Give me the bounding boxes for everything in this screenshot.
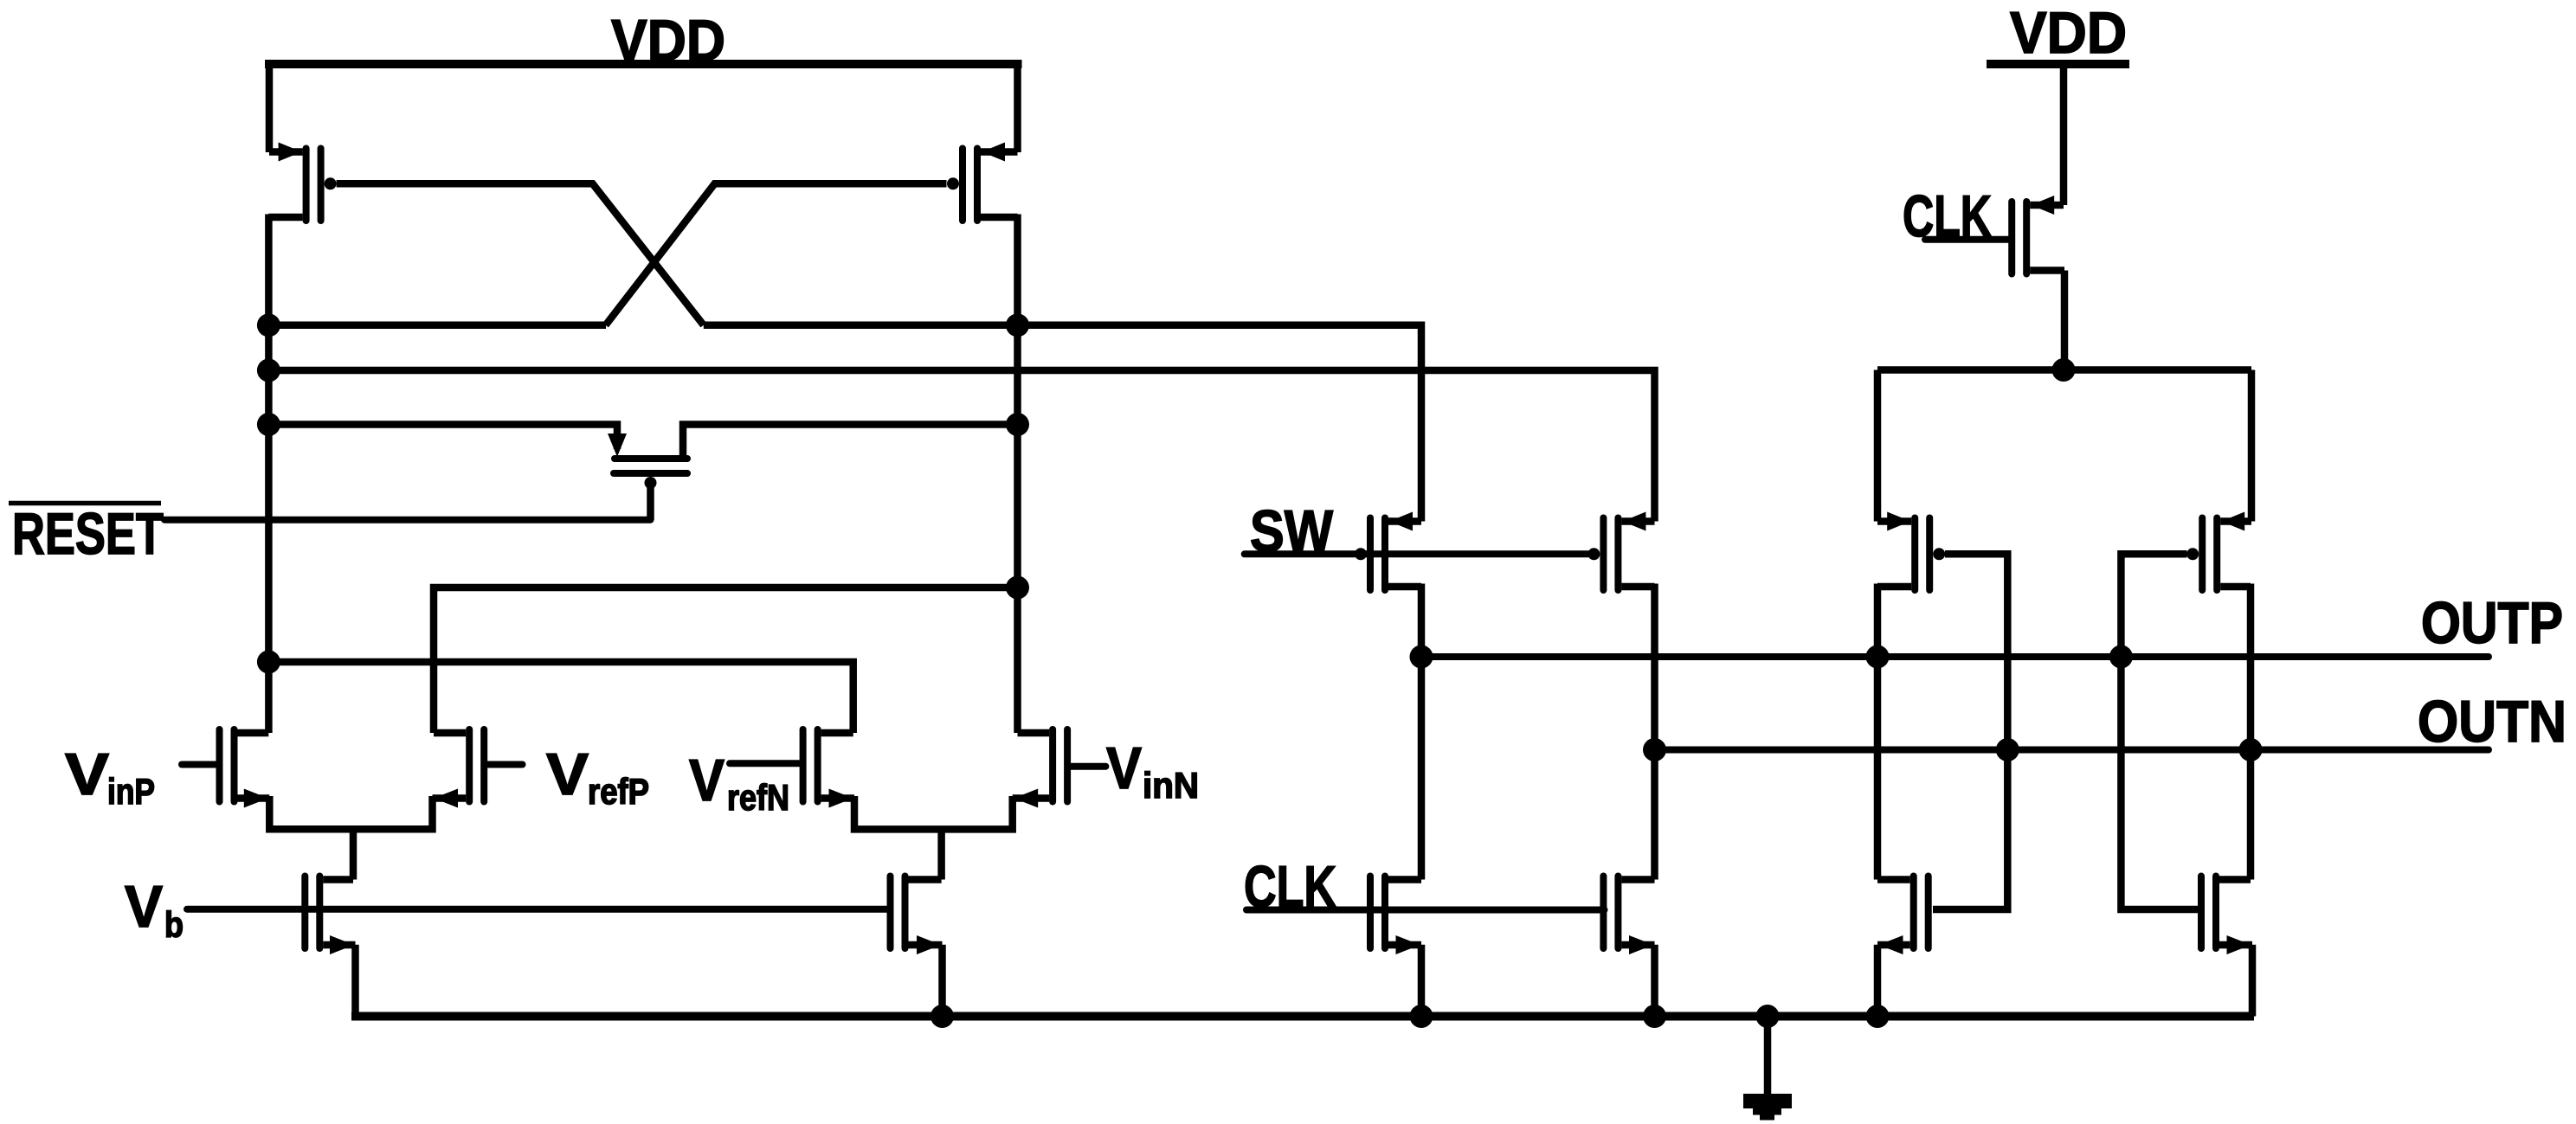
wire M17 source to ground rail: [1874, 945, 1882, 1017]
node dot left rail wire3: [257, 413, 280, 436]
wire RESET input: [164, 517, 651, 523]
node dot ground rail CLK left: [1410, 1005, 1433, 1028]
svg-text:VDD: VDD: [611, 8, 725, 74]
node dot OUTN at M16 drain: [2239, 738, 2263, 761]
node dot OUTP at M16 gate: [2109, 645, 2133, 669]
wire M15 drain / M17 drain column (OUTP tap): [1874, 584, 1882, 880]
wire VDD to CLK PMOS source: [2060, 64, 2068, 205]
transistor M7 (reference PMOS VrefN): [803, 729, 854, 808]
svg-text:b: b: [164, 904, 184, 945]
transistor M3 gate stub: [647, 486, 654, 520]
wire VDD rail left drop: [266, 60, 274, 152]
wire M16 gate to OUTP and M18 gate: [2121, 554, 2205, 909]
wire SW-left drain column to CLK-left drain: [1418, 584, 1426, 880]
node dot right rail wire3: [1006, 413, 1029, 436]
node dot ground rail tail M9: [931, 1005, 954, 1028]
transistor M3 gate bar: [614, 470, 687, 477]
svg-text:V: V: [1106, 735, 1142, 801]
transistor M9 (tail NMOS right (Vb)): [891, 877, 943, 955]
wire VDD rail right drop: [1014, 60, 1021, 152]
transistor M15 (output latch PMOS left): [1877, 512, 1945, 591]
wire tail M9 source to ground rail: [938, 945, 946, 1017]
wire SW gate line: [1245, 550, 1590, 557]
wire left output cross line to right SW source: [268, 370, 1654, 522]
wire reset-switch left arm: [268, 425, 617, 450]
svg-text:RESET: RESET: [12, 501, 164, 567]
transistor M17 (output latch NMOS left): [1877, 877, 1929, 955]
node dot OUTN at SW-right drain: [1643, 738, 1666, 761]
wire CLK-left source to ground rail: [1418, 945, 1426, 1017]
wire VinN gate lead: [1071, 763, 1105, 770]
transistor M11 (switch PMOS SW right): [1587, 512, 1654, 591]
transistor M8 (input PMOS VinN): [1013, 729, 1067, 808]
wire ground stub: [1764, 1017, 1772, 1096]
wire left latch rail (node X vertical): [265, 215, 273, 734]
wire M14 drain to latch tail node: [2061, 271, 2069, 370]
node dot left rail diff feed: [257, 651, 280, 674]
node dot ground rail ground stub: [1756, 1005, 1780, 1028]
wire common-source U of second diff pair: [854, 796, 1013, 829]
wire reset-switch right arm: [683, 425, 1018, 461]
wire VinP gate lead: [182, 761, 216, 768]
svg-text:inN: inN: [1143, 765, 1199, 806]
wire gate of M2 to drain of M1 (cross-couple diagonal): [606, 183, 947, 324]
transistor M18 (output latch NMOS right): [2201, 877, 2252, 955]
wire node Y (right latch output) horizontal to SW source: [704, 325, 1421, 522]
transistor M10 (switch PMOS SW left): [1355, 512, 1421, 591]
node dot OUTP at SW-left drain: [1410, 645, 1433, 669]
wire tail to M16 source: [2248, 370, 2256, 522]
power rail VDD (right): [1987, 60, 2129, 68]
node dot right rail diff feed: [1006, 576, 1029, 600]
wire VrefN gate lead: [730, 760, 799, 767]
svg-text:V: V: [65, 742, 109, 807]
transistor M4 (input PMOS VinP): [220, 729, 270, 808]
svg-text:VDD: VDD: [2010, 0, 2127, 66]
wire node X down-feed to VrefN drain: [268, 662, 853, 733]
wire gate of M1 to drain of M2 (cross-couple diagonal): [337, 183, 704, 324]
node dot left rail wire1: [257, 313, 280, 337]
svg-text:OUTP: OUTP: [2421, 590, 2563, 656]
transistor M13 (clocked NMOS CLK right): [1603, 877, 1654, 955]
wire node X (left latch output) horizontal segment: [268, 322, 606, 330]
wire ground rail: [351, 1012, 2254, 1021]
transistor M3 channel bar: [615, 455, 687, 462]
transistor M2 (cross-coupled PMOS right): [947, 143, 1018, 222]
wire tail stub diff pair 1: [350, 829, 357, 879]
ground symbol: [1743, 1094, 1792, 1121]
svg-text:V: V: [546, 742, 589, 807]
node dot right rail wire1: [1006, 313, 1029, 337]
node dot OUTN at M15 gate: [1996, 738, 2019, 761]
svg-text:inP: inP: [107, 771, 155, 812]
node dot left rail wire2: [257, 359, 280, 382]
power rail VDD (left): [265, 60, 1022, 68]
wire latch tail crossbar: [1877, 366, 2251, 374]
transistor M12 (clocked NMOS CLK left): [1370, 877, 1421, 955]
transistor M3 gate bubble: [645, 477, 657, 489]
transistor M16 (output latch PMOS right): [2186, 512, 2251, 591]
svg-text:OUTN: OUTN: [2418, 689, 2566, 755]
wire CLK gate lead (top right): [1925, 236, 2009, 243]
node dot ground rail CLK right: [1643, 1005, 1666, 1028]
svg-text:V: V: [125, 874, 163, 940]
node dot OUTP at M15 drain: [1866, 645, 1890, 669]
svg-text:V: V: [689, 748, 724, 813]
label RESET overline: [9, 501, 161, 506]
wire node Y down-feed to VrefP drain: [434, 588, 1018, 733]
wire M15 gate to OUTN and M17 gate: [1933, 554, 2007, 909]
wire tail stub diff pair 2: [937, 829, 945, 879]
wire output line OUTP: [1421, 653, 2489, 660]
svg-text:refP: refP: [588, 771, 649, 812]
transistor M5 (reference PMOS VrefP): [433, 729, 485, 808]
transistor M3 (RESET equalizer NMOS) arrow: [608, 434, 627, 457]
transistor M14 (clock PMOS (VDD switch)): [2012, 196, 2064, 274]
wire M16 drain / M18 drain column (OUTN tap): [2247, 584, 2255, 880]
wire SW-right drain column to CLK-right drain: [1651, 584, 1658, 880]
wire CLK-right source to ground rail: [1651, 945, 1658, 1017]
transistor M6 (tail NMOS left (Vb)): [305, 877, 355, 955]
wire VrefP gate lead: [487, 761, 523, 768]
wire common-source U of first diff pair: [269, 796, 432, 829]
wire output line OUTN: [1655, 747, 2489, 754]
svg-text:refN: refN: [727, 777, 789, 818]
wire right latch rail (node Y vertical): [1014, 215, 1021, 734]
node dot ground rail M17: [1866, 1005, 1890, 1028]
wire Vb bias line: [187, 906, 890, 913]
wire tail M6 source to ground rail: [351, 945, 359, 1017]
wire M18 source to ground rail: [2249, 945, 2257, 1017]
wire CLK gate line (middle): [1246, 907, 1605, 914]
transistor M1 (cross-coupled PMOS left): [268, 143, 336, 222]
node dot latch tail: [2052, 358, 2076, 382]
wire tail to M15 source: [1874, 370, 1882, 522]
